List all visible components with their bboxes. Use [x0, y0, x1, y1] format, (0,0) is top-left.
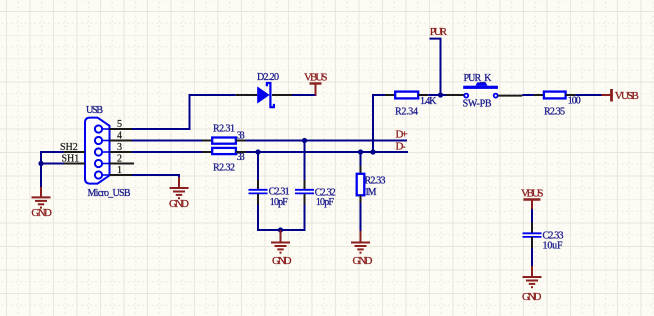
pin SH2 stub: [60, 142, 85, 153]
switch PUR_K left stub: [446, 94, 465, 96]
pin 3 stub: [110, 142, 133, 153]
pin SH1 stub: [62, 154, 86, 165]
wire vertical shield gnd: [40, 151, 42, 188]
svg-text:R2.34: R2.34: [395, 106, 418, 117]
svg-text:VBUS: VBUS: [304, 72, 328, 84]
svg-text:SW-PB: SW-PB: [463, 99, 492, 110]
svg-text:100: 100: [568, 96, 581, 107]
svg-text:R2.35: R2.35: [544, 106, 565, 117]
wire D-: [246, 151, 408, 153]
diode cathode stub: [272, 94, 292, 96]
capacitor C2.32 bottom stub: [304, 194, 306, 205]
svg-text:10pF: 10pF: [270, 197, 288, 208]
resistor R2.32: [212, 148, 236, 154]
capacitor C2.31 top stub: [257, 180, 259, 189]
svg-text:GND: GND: [31, 207, 52, 219]
ground GND shield: [31, 187, 52, 219]
wire VBUS to C2.33: [531, 209, 533, 223]
svg-text:R2.33: R2.33: [365, 176, 386, 187]
wire SH2 to gnd drop: [41, 151, 64, 153]
resistor R2.33: [357, 174, 365, 196]
resistor R2.32 left stub: [202, 151, 212, 153]
svg-text:Micro_USB: Micro_USB: [88, 188, 131, 199]
pin 4 stub: [110, 131, 133, 142]
resistor R2.32 right stub: [236, 151, 246, 153]
connector J USB body: [85, 118, 110, 184]
wire SH1 to gnd drop: [41, 163, 64, 165]
svg-text:C2.31: C2.31: [269, 187, 290, 198]
wire pin4 to R2.31: [132, 140, 202, 142]
svg-text:VBUS: VBUS: [521, 187, 544, 199]
capacitor C2.33 top stub: [531, 223, 533, 234]
wire PUR drop: [430, 39, 441, 95]
svg-text:D+: D+: [396, 129, 408, 141]
ground GND caps: [271, 230, 292, 267]
svg-text:GND: GND: [272, 255, 292, 267]
svg-text:1M: 1M: [365, 187, 377, 198]
wire C2.31 top: [257, 152, 259, 180]
svg-text:5: 5: [117, 119, 122, 130]
resistor R2.33 bottom stub: [360, 195, 362, 202]
capacitor C2.33 bottom stub: [531, 237, 533, 248]
power port VUSB: [602, 89, 639, 102]
junction shield: [38, 161, 43, 166]
svg-text:PUR_K: PUR_K: [464, 73, 493, 84]
wire pin3 to R2.32: [132, 151, 202, 153]
diode D2.20: [257, 83, 274, 107]
switch PUR_K SW-PB: [463, 82, 498, 97]
power port VBUS bottom: [521, 187, 544, 209]
resistor R2.35: [544, 92, 566, 99]
junction pullup D-: [370, 149, 375, 154]
svg-text:R2.32: R2.32: [213, 163, 235, 174]
capacitor C2.31: [249, 190, 268, 194]
capacitor C2.33: [523, 233, 542, 237]
wire R2.35 to VUSB: [576, 94, 602, 96]
resistor R2.34 right stub: [418, 94, 428, 96]
svg-text:GND: GND: [169, 198, 189, 210]
svg-text:1.4K: 1.4K: [420, 96, 437, 107]
resistor R2.33 top stub: [360, 166, 362, 174]
svg-text:3: 3: [117, 142, 122, 153]
power port VBUS top: [304, 72, 328, 96]
resistor R2.35 left stub: [534, 94, 544, 96]
resistor R2.31 left stub: [202, 140, 212, 142]
wire pin1 to gnd: [132, 175, 179, 178]
capacitor C2.31 bottom stub: [257, 194, 259, 205]
wire pin5 up to diode row: [132, 95, 236, 129]
wire caps join: [257, 229, 306, 231]
wire C2.33 to gnd: [531, 248, 533, 267]
capacitor C2.32: [295, 190, 314, 194]
svg-text:4: 4: [117, 131, 122, 142]
svg-text:SH1: SH1: [62, 154, 80, 165]
wire C2.32 bottom: [304, 205, 306, 232]
capacitor C2.32 top stub: [304, 180, 306, 189]
junction caps gnd: [278, 227, 283, 232]
ground GND pin1: [169, 177, 189, 210]
ground GND C2.33: [522, 266, 542, 303]
wire D+: [246, 140, 407, 142]
pin 5 stub: [110, 119, 133, 130]
resistor R2.31 right stub: [236, 140, 246, 142]
svg-text:D2.20: D2.20: [257, 72, 279, 83]
diode D2.20 anode stub: [236, 94, 258, 96]
svg-text:10uF: 10uF: [543, 241, 563, 252]
junction C2.32 D+: [302, 138, 307, 143]
svg-text:2: 2: [117, 154, 122, 165]
svg-text:PUR: PUR: [430, 26, 448, 38]
svg-text:R2.31: R2.31: [213, 124, 235, 135]
svg-text:D-: D-: [396, 141, 406, 153]
wire D- up to pullup row: [373, 95, 385, 152]
junction PUR: [438, 92, 443, 97]
resistor R2.35 right stub: [566, 94, 576, 96]
pin 2 stub: [110, 154, 135, 165]
svg-text:GND: GND: [522, 291, 542, 303]
ground GND R2.33: [351, 231, 373, 267]
wire C2.32 top: [304, 141, 306, 181]
resistor R2.34 left stub: [385, 94, 395, 96]
wire C2.31 bottom: [257, 205, 259, 232]
wire R2.33 to gnd: [360, 203, 362, 232]
resistor R2.34: [395, 92, 418, 99]
svg-text:VUSB: VUSB: [615, 90, 639, 102]
switch right stub: [498, 95, 522, 97]
wire diode to VBUS: [292, 94, 317, 96]
wire switch to R2.35: [522, 94, 534, 96]
junction C2.31 D-: [255, 149, 260, 154]
junction R2.33 D-: [358, 149, 363, 154]
svg-text:USB: USB: [86, 105, 103, 116]
wire R2.33 top: [360, 152, 362, 166]
svg-text:10pF: 10pF: [316, 197, 334, 208]
svg-text:1: 1: [117, 165, 122, 176]
wire R2.34 to switch: [428, 94, 446, 96]
svg-text:GND: GND: [353, 255, 373, 267]
pin 1 stub: [110, 165, 133, 176]
svg-text:33: 33: [237, 152, 245, 163]
resistor R2.31: [212, 138, 236, 144]
